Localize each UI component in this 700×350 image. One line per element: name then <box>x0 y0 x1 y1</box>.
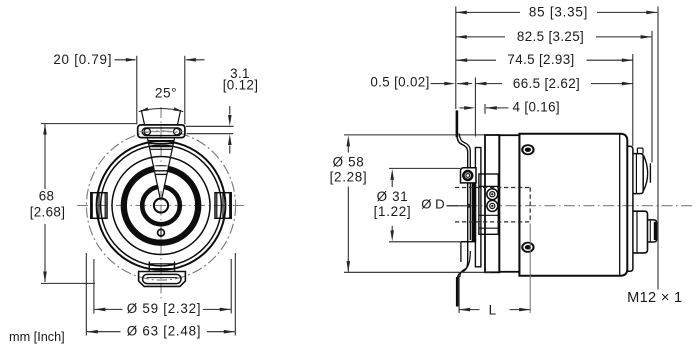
dimension Ø63 [2.48] text <box>127 323 202 338</box>
flange top tail <box>457 110 470 151</box>
setscrew block <box>479 174 498 234</box>
dimension 4 [0.16] text <box>513 99 560 114</box>
wedge slot cutout <box>154 166 168 191</box>
inner housing circle <box>101 145 222 266</box>
svg-text:74.5 [2.93]: 74.5 [2.93] <box>507 52 574 67</box>
mounting screw plate <box>461 168 477 183</box>
svg-text:M12 × 1: M12 × 1 <box>627 290 682 306</box>
svg-text:20 [0.79]: 20 [0.79] <box>53 52 112 67</box>
svg-text:[2.68]: [2.68] <box>30 205 66 220</box>
shaft bore circle <box>154 198 168 212</box>
clamping ring (thick) <box>124 168 198 242</box>
dimension 82.5 [3.25] lines <box>456 31 652 163</box>
svg-text:68: 68 <box>39 188 55 203</box>
clamp interface bottom step <box>461 242 476 262</box>
svg-text:4 [0.16]: 4 [0.16] <box>513 99 560 114</box>
rear cover plate <box>627 146 633 271</box>
dimension 25 deg text <box>155 86 177 101</box>
dimension 82.5 [3.25] text <box>517 29 584 44</box>
flange plate <box>468 150 471 262</box>
svg-text:Ø 31: Ø 31 <box>377 189 409 204</box>
clamp ring side <box>475 148 481 267</box>
svg-text:L: L <box>489 303 497 318</box>
svg-text:Ø D: Ø D <box>421 197 444 212</box>
dimension 4 [0.16] lines <box>460 104 509 114</box>
svg-text:Ø 58: Ø 58 <box>333 155 365 170</box>
25 deg wedge lines above lug <box>141 110 180 125</box>
housing seam front <box>518 134 520 276</box>
dimension 0.5 [0.02] text <box>370 75 429 90</box>
lug neck ribs <box>148 141 174 175</box>
dimension Ø58 [2.28] lines <box>344 135 491 272</box>
dimension 74.5 [2.93] lines <box>456 54 633 146</box>
upper rear connector <box>633 148 650 194</box>
dimension ØD leader <box>447 204 471 208</box>
svg-text:[1.22]: [1.22] <box>374 204 412 219</box>
dimension 0.5 and 66.5 lines <box>431 78 633 137</box>
flange clamp interface bar <box>472 170 477 242</box>
dimension 85 [3.35] lines <box>456 7 658 290</box>
left mounting tab <box>91 193 107 219</box>
cover screw top <box>521 144 534 155</box>
shaft collar ring <box>142 187 180 225</box>
dimension Ø31 [1.22] lines <box>389 168 461 241</box>
dimension 68 [2.68] text <box>30 188 66 219</box>
25 deg wedge lines to apex <box>147 138 174 198</box>
centerline vertical (front view) <box>160 107 162 299</box>
svg-text:25°: 25° <box>155 86 177 101</box>
dimension L lines <box>459 224 530 314</box>
dimension ØD text <box>421 197 444 212</box>
svg-text:0.5 [0.02]: 0.5 [0.02] <box>370 75 429 90</box>
svg-text:[0.12]: [0.12] <box>223 77 259 92</box>
dimension 3.1 [0.12] text <box>223 66 259 92</box>
dimension Ø63 [2.48] lines <box>86 253 235 336</box>
front clamp ring Ø58 <box>485 135 499 272</box>
units label mm [Inch] <box>9 330 65 344</box>
dimension L text <box>489 303 497 318</box>
svg-text:mm [Inch]: mm [Inch] <box>9 330 65 344</box>
setscrew hole below center <box>158 229 165 236</box>
svg-text:[2.28]: [2.28] <box>330 169 368 184</box>
dimension Ø31 [1.22] text <box>374 189 412 219</box>
front cover circle <box>112 157 210 255</box>
svg-text:66.5 [2.62]: 66.5 [2.62] <box>513 76 580 91</box>
phantom circle Ø63 <box>86 131 235 280</box>
setscrew hole tick <box>160 228 162 238</box>
right mounting tab <box>215 193 231 219</box>
bottom lug neck <box>149 262 174 272</box>
dimension 20 [0.79] lines <box>115 56 205 125</box>
outer housing circle <box>97 141 226 270</box>
housing front bezel <box>499 135 519 272</box>
centerline horizontal (side view) <box>447 205 692 207</box>
M12 connector body <box>633 211 648 253</box>
hollow shaft bore (dashed) <box>455 188 530 222</box>
cover screw bottom <box>521 242 534 253</box>
dimension Ø59 [2.32] lines <box>94 259 231 314</box>
setscrew 2 <box>487 200 498 211</box>
dimension 74.5 [2.93] text <box>507 52 574 67</box>
dimension 85 [3.35] text <box>529 5 588 20</box>
dimension 66.5 [2.62] text <box>513 76 580 91</box>
connector label M12 × 1 <box>627 290 682 306</box>
svg-text:85 [3.35]: 85 [3.35] <box>529 5 588 20</box>
mounting screw head <box>463 171 472 180</box>
M12 thread barrel <box>648 220 657 242</box>
dimension 25 deg arc <box>138 107 183 111</box>
svg-text:Ø 59 [2.32]: Ø 59 [2.32] <box>127 301 202 316</box>
svg-text:Ø 63 [2.48]: Ø 63 [2.48] <box>127 323 202 338</box>
dimension 3.1 [0.12] lines <box>186 106 234 154</box>
svg-text:82.5 [3.25]: 82.5 [3.25] <box>517 29 584 44</box>
housing body <box>519 134 627 276</box>
setscrew 1 <box>487 189 498 200</box>
dimension 68 [2.68] lines <box>41 124 137 284</box>
dimension Ø59 [2.32] text <box>127 301 202 316</box>
dimension Ø58 [2.28] text <box>330 155 368 185</box>
top clamp lug <box>138 125 185 138</box>
flange bottom tail <box>457 251 470 307</box>
centerline horizontal (front view) <box>77 205 246 207</box>
dimension 20 [0.79] text <box>53 52 112 67</box>
housing seam rear <box>619 134 621 276</box>
bottom lug <box>139 272 186 287</box>
